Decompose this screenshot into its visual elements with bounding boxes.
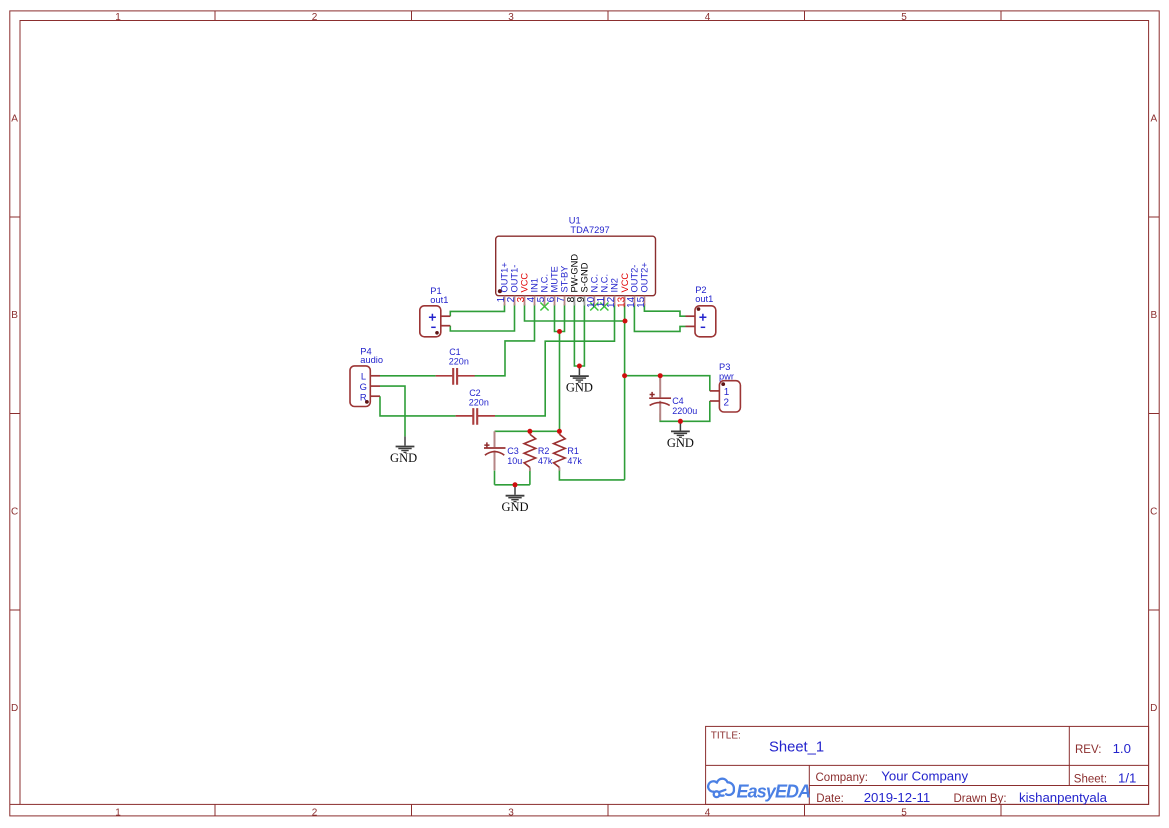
svg-text:N.C.: N.C. (600, 274, 610, 293)
svg-text:out1: out1 (430, 295, 448, 305)
svg-text:pwr: pwr (719, 371, 734, 381)
svg-text:B: B (11, 310, 18, 321)
svg-text:Drawn By:: Drawn By: (954, 793, 1007, 805)
svg-text:TDA7297: TDA7297 (570, 225, 609, 235)
wire P4 R to C2 (380, 396, 456, 416)
wire U1 pin6 MUTE / pin7 ST-BY tie (555, 304, 565, 332)
U1 pin 13 (624, 296, 626, 306)
wire C4 bottom to P3 pin2 (660, 401, 710, 421)
svg-text:1: 1 (724, 387, 730, 398)
wire R1 bottom to VCC rail (559, 470, 624, 480)
svg-text:Sheet:: Sheet: (1074, 774, 1107, 786)
IC U1 TDA7297 body (496, 236, 656, 296)
wire VCC to P3 pin1 (625, 376, 710, 391)
junction C4 bottom ground (678, 419, 683, 424)
svg-text:PW-GND: PW-GND (570, 254, 580, 293)
svg-text:R1: R1 (567, 446, 579, 456)
no-connect X on U1 pin 10 (590, 303, 598, 311)
capacitor C1 (436, 368, 475, 385)
U1 pin 1 (504, 296, 506, 306)
wire P4 L to C1 (380, 375, 436, 377)
svg-text:out1: out1 (695, 294, 713, 304)
wire C2 to U1 pin12 IN2 (495, 304, 615, 416)
junction MUTE/ST-BY node (557, 329, 562, 334)
svg-text:ST-BY: ST-BY (560, 266, 570, 293)
svg-text:2019-12-11: 2019-12-11 (864, 790, 930, 805)
svg-text:VCC: VCC (620, 273, 630, 293)
svg-text:OUT2-: OUT2- (630, 265, 640, 293)
svg-text:R: R (360, 391, 367, 402)
wire C3 bottom to ground rail (494, 471, 496, 485)
resistor R1 (554, 431, 566, 470)
svg-text:EasyEDA: EasyEDA (737, 781, 811, 801)
svg-text:C1: C1 (449, 347, 461, 357)
svg-text:Your Company: Your Company (881, 769, 968, 784)
U1 pin 7 (564, 296, 566, 306)
svg-text:C: C (1150, 506, 1157, 517)
svg-text:47k: 47k (567, 456, 582, 466)
U1 pin 5 (544, 296, 546, 306)
U1 pin 8 (573, 296, 575, 306)
wire R2 bottom to ground rail (529, 468, 531, 485)
U1 pin 10 (593, 296, 595, 306)
svg-text:Sheet_1: Sheet_1 (769, 740, 824, 756)
connector P2 (686, 306, 716, 337)
U1 pin 11 (603, 296, 605, 306)
svg-text:15: 15 (636, 296, 647, 308)
no-connect X on U1 pin 11 (600, 303, 608, 311)
svg-text:1: 1 (115, 807, 121, 818)
svg-text:GND: GND (566, 381, 593, 395)
svg-text:A: A (1150, 113, 1157, 124)
svg-text:R2: R2 (538, 446, 550, 456)
svg-text:B: B (1150, 310, 1157, 321)
ground symbol GND under C4 (667, 421, 694, 450)
wire VCC vertical rail (624, 304, 626, 480)
svg-text:3: 3 (508, 807, 514, 818)
svg-text:A: A (11, 113, 18, 124)
svg-text:kishanpentyala: kishanpentyala (1019, 790, 1108, 805)
svg-text:Date:: Date: (816, 793, 844, 805)
svg-text:OUT2+: OUT2+ (640, 262, 650, 292)
svg-text:4: 4 (705, 12, 711, 23)
svg-text:IN2: IN2 (610, 278, 620, 292)
svg-text:OUT1+: OUT1+ (500, 262, 510, 292)
capacitor C2 (456, 408, 495, 425)
ground symbol GND under C3/R2 (501, 485, 528, 514)
svg-text:U1: U1 (569, 216, 581, 226)
svg-text:L: L (361, 371, 366, 382)
U1 pin 3 (524, 296, 526, 306)
svg-text:3: 3 (508, 12, 514, 23)
U1 pin 4 (534, 296, 536, 306)
U1 pin 14 (633, 296, 635, 306)
svg-text:1/1: 1/1 (1118, 771, 1136, 786)
svg-text:5: 5 (901, 807, 907, 818)
svg-text:C: C (11, 506, 18, 517)
svg-text:1.0: 1.0 (1113, 741, 1131, 756)
svg-text:220n: 220n (449, 357, 469, 367)
junction R1 top (557, 429, 562, 434)
svg-text:N.C.: N.C. (540, 274, 550, 293)
wire U1 pin15 to P2 + (644, 304, 685, 316)
wire U1 pin3 VCC bus (525, 304, 625, 321)
svg-text:4: 4 (705, 807, 711, 818)
svg-text:220n: 220n (469, 398, 489, 408)
svg-text:GND: GND (501, 500, 528, 514)
svg-text:D: D (11, 703, 18, 714)
svg-text:audio: audio (360, 355, 383, 365)
ground symbol GND under U1 pins 8/9 (566, 366, 593, 395)
wire MUTE/ST-BY node down to RC network (559, 332, 561, 432)
svg-text:10u: 10u (507, 456, 522, 466)
svg-text:N.C.: N.C. (590, 274, 600, 293)
svg-text:D: D (1150, 703, 1157, 714)
svg-text:IN1: IN1 (530, 278, 540, 292)
wire RC top node (495, 430, 560, 432)
junction R2 top (527, 429, 532, 434)
capacitor C3 polarized (484, 431, 506, 470)
junction ground rail C3/R2 (513, 482, 518, 487)
resistor R2 (524, 431, 536, 471)
capacitor C4 polarized (649, 378, 671, 421)
wire U1 pin8 PW-GND / pin9 S-GND to ground (574, 304, 584, 366)
wire U1 pin14 to P2 - (634, 304, 685, 331)
svg-text:REV:: REV: (1075, 744, 1101, 756)
no-connect X on U1 pin 5 (540, 303, 548, 311)
svg-text:GND: GND (390, 451, 417, 465)
wire P4 G to ground (380, 386, 405, 436)
svg-text:C4: C4 (672, 396, 684, 406)
connector P4 (350, 366, 380, 407)
svg-text:Company:: Company: (816, 772, 868, 784)
svg-text:TITLE:: TITLE: (711, 731, 741, 742)
connector P3 (710, 381, 741, 412)
U1 pin 12 (614, 296, 616, 306)
ground symbol GND under P4 (390, 436, 417, 465)
svg-text:GND: GND (667, 436, 694, 450)
wire U1 pin1 to P1 + (450, 304, 504, 316)
junction C4 top (658, 373, 663, 378)
U1 pin 6 (554, 296, 556, 306)
svg-text:VCC: VCC (520, 273, 530, 293)
svg-text:5: 5 (901, 12, 907, 23)
wire U1 pin2 to P1 - (450, 304, 514, 331)
svg-text:47k: 47k (538, 456, 553, 466)
svg-text:C2: C2 (469, 388, 481, 398)
svg-text:2: 2 (312, 12, 318, 23)
svg-text:MUTE: MUTE (550, 266, 560, 292)
wire U1 pin4 IN1 to C1 (475, 304, 535, 376)
U1 pin 9 (583, 296, 585, 306)
wire ground rail C3/R2 (495, 484, 530, 486)
svg-text:S-GND: S-GND (580, 262, 590, 292)
junction VCC bus at pin13 rail (623, 319, 628, 324)
svg-text:OUT1-: OUT1- (510, 265, 520, 293)
svg-text:2200u: 2200u (672, 406, 697, 416)
svg-text:1: 1 (115, 12, 121, 23)
junction PW-GND/S-GND node (577, 364, 582, 369)
U1 pin 15 (643, 296, 645, 306)
svg-text:2: 2 (312, 807, 318, 818)
junction VCC rail at C4 branch (622, 373, 627, 378)
svg-text:C3: C3 (507, 446, 519, 456)
connector P1 (420, 306, 451, 337)
svg-text:2: 2 (724, 398, 730, 409)
U1 pin 2 (514, 296, 516, 306)
wire VCC to C4 top (659, 376, 661, 382)
